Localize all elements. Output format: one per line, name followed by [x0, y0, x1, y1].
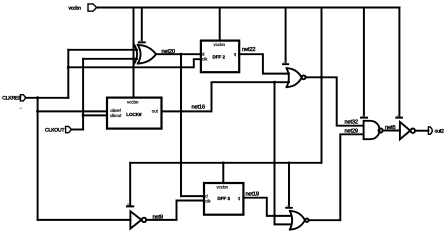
svg-text:net19: net19 [246, 191, 259, 197]
inverter INV1 [130, 211, 146, 228]
junction clkref tap [36, 110, 39, 113]
wire riser x83 [82, 59, 84, 130]
wire net19 DFF3 q to NOR2 [243, 198, 291, 216]
svg-text:vccbn: vccbn [69, 5, 82, 11]
nor gate NOR2 [290, 211, 309, 230]
LOCK# block [107, 98, 162, 129]
wire vccbn top rail [97, 7, 400, 9]
svg-text:vccbn: vccbn [217, 184, 229, 189]
svg-text:out2: out2 [435, 129, 445, 135]
junction DFF3 power tap [222, 162, 225, 165]
svg-text:DFF 3: DFF 3 [218, 196, 231, 201]
wire power drop to NOR2 [286, 163, 292, 208]
wire INV2 out to out2 pin [415, 130, 428, 132]
svg-text:net16: net16 [192, 104, 205, 110]
svg-text:LOCK#: LOCK# [126, 112, 142, 117]
wire net22 DFF2 q to NOR1 [239, 54, 289, 73]
junction power line crossing x274 [273, 162, 275, 164]
wire to LOCK# clkout [83, 114, 107, 116]
svg-text:net22: net22 [242, 47, 255, 53]
nor gate NOR1 [287, 68, 306, 87]
wire to LOCK# clkref [38, 110, 107, 112]
svg-text:out: out [152, 109, 159, 114]
svg-text:clk: clk [202, 57, 208, 62]
wire net16 LOCK# out [162, 82, 290, 111]
wire CLKREF down branch x37 [37, 98, 39, 220]
wire power drop to XOR U1 [139, 8, 145, 43]
junction y67 line [180, 66, 183, 69]
out2 output pin [428, 127, 444, 135]
wire bottom power line [130, 162, 321, 164]
wire power drop to INV2 (rail end) [396, 8, 402, 118]
junction XOR input A crossing [132, 49, 134, 51]
junction clkout tap [82, 114, 85, 117]
svg-text:net32: net32 [345, 119, 358, 125]
junction NOR1 input B tap [273, 81, 276, 84]
wire net9 INV1 out to DFF3 clk [146, 201, 204, 220]
inverter INV2 [400, 122, 415, 139]
junction power line crossing x181 [180, 162, 182, 164]
junction CLKREF branch [36, 49, 323, 218]
junction y67 tap on CLKREF riser [67, 66, 70, 69]
CLKREF input pin [2, 95, 26, 102]
stray dash [20, 107, 23, 110]
svg-text:net29: net29 [345, 128, 358, 134]
nand gate U5 [364, 121, 383, 139]
svg-text:vccbn: vccbn [214, 42, 226, 47]
wire net6 NAND out to INV2 [383, 130, 400, 132]
svg-text:net20: net20 [162, 49, 175, 55]
wire long vertical to bottom power line [321, 8, 323, 163]
wire NOR1.B branch down x274.5 [275, 82, 292, 224]
wire to INV1 input [38, 219, 131, 221]
wire CLKOUT to riser [72, 129, 84, 131]
wire power drop to NOR1 [283, 8, 288, 65]
wire y58.4 to XOR input B [83, 58, 137, 60]
wire power drop to LOCK# [133, 8, 135, 98]
wire power drop to INV1 [127, 163, 133, 207]
wire power drop to DFF3 [222, 163, 224, 183]
svg-text:clkout: clkout [110, 113, 122, 118]
wire net20 XOR out to DFF2 d [156, 53, 201, 55]
junction net20 tap [180, 53, 183, 56]
wire net20 vertical down x181 [180, 54, 182, 196]
wire power drop to NAND [361, 8, 367, 118]
svg-text:CLKOUT: CLKOUT [45, 127, 64, 133]
wire CLKREF to riser [26, 97, 69, 99]
vccbn input pin [69, 4, 97, 11]
svg-text:clk: clk [205, 198, 211, 203]
CLKOUT input pin [45, 126, 72, 133]
wire y49.6 to XOR input A [68, 49, 137, 51]
junction net16 line [180, 110, 183, 113]
wire net29 riser from NOR2 out [309, 134, 364, 220]
DFF3 block [204, 183, 243, 215]
wire y67 CLKREF to DFF2 clk stair [68, 59, 201, 67]
junction NOR2 power tap [288, 162, 291, 165]
svg-text:CLKREF: CLKREF [2, 95, 21, 101]
wire NOR1 out to net32 [306, 77, 364, 125]
svg-text:DFF 2: DFF 2 [213, 54, 226, 59]
wire riser x68 [67, 50, 69, 98]
svg-text:vccbn: vccbn [127, 99, 139, 104]
svg-text:net9: net9 [153, 214, 163, 220]
junction NOR1 output to vertical [320, 76, 323, 79]
junction net19 line [273, 214, 276, 217]
junction XOR input B crossing [132, 58, 134, 60]
xor gate U1 [134, 45, 156, 64]
DFF2 block [201, 41, 239, 73]
wire power drop to DFF2 [219, 8, 221, 41]
wire to DFF3 d [181, 195, 204, 197]
svg-text:net6: net6 [385, 125, 395, 131]
